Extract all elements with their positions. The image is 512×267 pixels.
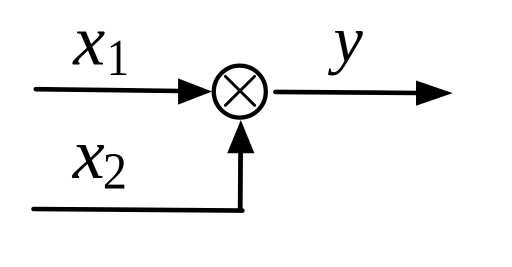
arrowhead output y — [416, 81, 453, 106]
multiplier node U1 (circle) — [214, 66, 266, 118]
svg-text:y: y — [328, 4, 364, 77]
wire output y — [275, 92, 419, 93]
wire input x2 horizontal — [34, 209, 243, 211]
svg-text:2: 2 — [103, 142, 127, 200]
wire input x1 — [36, 89, 181, 91]
svg-text:x: x — [72, 114, 105, 194]
arrowhead input x2 (pointing up) — [227, 120, 254, 153]
wire input x2 vertical riser — [238, 151, 243, 211]
svg-text:x: x — [72, 0, 105, 80]
multiplier cross — [225, 76, 254, 105]
arrowhead input x1 — [178, 78, 212, 104]
svg-text:1: 1 — [107, 30, 129, 87]
